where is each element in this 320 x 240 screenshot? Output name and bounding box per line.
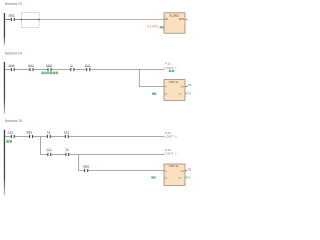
dashed selection box (21, 12, 39, 27)
contact F14 row1 (64, 130, 70, 138)
power rail network 25 (4, 130, 5, 196)
svg-text:Network 24: Network 24 (5, 52, 22, 56)
svg-text:T4: T4 (188, 83, 192, 87)
comment green under coil F12 (169, 70, 175, 72)
svg-text:B_DEC: B_DEC (170, 13, 180, 17)
wire rung 23 left (5, 19, 11, 21)
branch2 wire down network 25 (79, 155, 84, 171)
wire TON T6 tv stub green (185, 177, 186, 179)
contact Y12 (8, 130, 15, 138)
pin name green inside block (166, 28, 169, 30)
wire rung 24 seg 6 (90, 69, 164, 71)
junction right (39, 19, 40, 20)
wire rung 25 seg 5 (69, 136, 164, 138)
svg-text:EN: EN (165, 18, 169, 21)
coil OUT F14 (164, 148, 177, 155)
svg-text:( OUT >: ( OUT > (164, 151, 177, 155)
svg-text:TV: TV (179, 94, 182, 96)
contact M48 (8, 63, 15, 71)
wire TON T4 out stub (185, 86, 188, 88)
comment green under M05 (41, 72, 58, 75)
svg-text:V1000: V1000 (147, 24, 159, 28)
wire rung 24 seg 5 (74, 69, 86, 71)
contact M01 (8, 13, 14, 21)
branch1 wire down network 25 (40, 137, 47, 155)
wire rung 25 seg 2 (15, 136, 29, 138)
contact I2 (70, 63, 74, 71)
wire TON T6 out stub (185, 170, 188, 172)
timer block TON T6 (164, 164, 185, 185)
wire rung 25 seg 4 (51, 136, 65, 138)
wire rung 25 seg 3 (33, 136, 47, 138)
contact M05 (46, 63, 52, 71)
svg-text:( OUT >: ( OUT > (164, 134, 177, 138)
wire rung 25 seg 1 (5, 136, 11, 138)
wire rung 24 seg 4 (52, 69, 71, 71)
contact B36 (26, 130, 33, 138)
coil OUT F13 (164, 131, 177, 138)
svg-text:Out: Out (180, 170, 184, 173)
svg-text:TON 1s: TON 1s (169, 80, 179, 84)
svg-text:Network 25: Network 25 (5, 119, 22, 123)
timer block TON T4 (164, 80, 185, 101)
branch wire down network 24 (139, 70, 164, 87)
svg-text:T16: T16 (185, 176, 190, 180)
svg-text:Out: Out (180, 85, 184, 88)
svg-text:ENO: ENO (179, 18, 184, 21)
operand suffix green (160, 26, 164, 28)
wire branch1 seg 2 (51, 154, 65, 156)
contact Y13 (46, 147, 52, 156)
svg-text:T14: T14 (186, 92, 191, 96)
operand PT green left of TON T6 (151, 176, 155, 178)
contact T4 row1 (47, 130, 51, 138)
operand PT green left of TON T4 (152, 93, 156, 95)
contact T4 branch1 (65, 147, 69, 156)
power rail network 24 (4, 62, 5, 114)
contact B40 (28, 63, 34, 71)
wire rung 23 to block (15, 19, 39, 21)
function block B_DEC (164, 13, 185, 33)
wire rung 24 seg 1 (5, 69, 11, 71)
svg-text:Network 23: Network 23 (5, 2, 22, 6)
comment green under Y12 (6, 140, 12, 143)
wire rung 23 right part (39, 19, 164, 21)
wire rung 24 seg 2 (15, 69, 30, 71)
contact M22 (83, 164, 89, 172)
wire branch1 seg 3 (69, 154, 164, 156)
contact M21 (85, 63, 91, 71)
wire TON T4 tv stub green (185, 93, 187, 95)
wire rung 24 seg 3 (34, 69, 48, 71)
svg-text:( OUT >: ( OUT > (164, 66, 177, 70)
svg-text:T6: T6 (188, 167, 192, 171)
svg-text:TON 1s: TON 1s (169, 164, 179, 168)
junction left (21, 19, 22, 20)
wire block output stub (185, 19, 188, 21)
power rail network 23 (4, 13, 5, 45)
svg-text:TV: TV (178, 178, 181, 180)
coil OUT F12 (164, 62, 177, 70)
wire branch2 seg 2 (88, 170, 164, 172)
